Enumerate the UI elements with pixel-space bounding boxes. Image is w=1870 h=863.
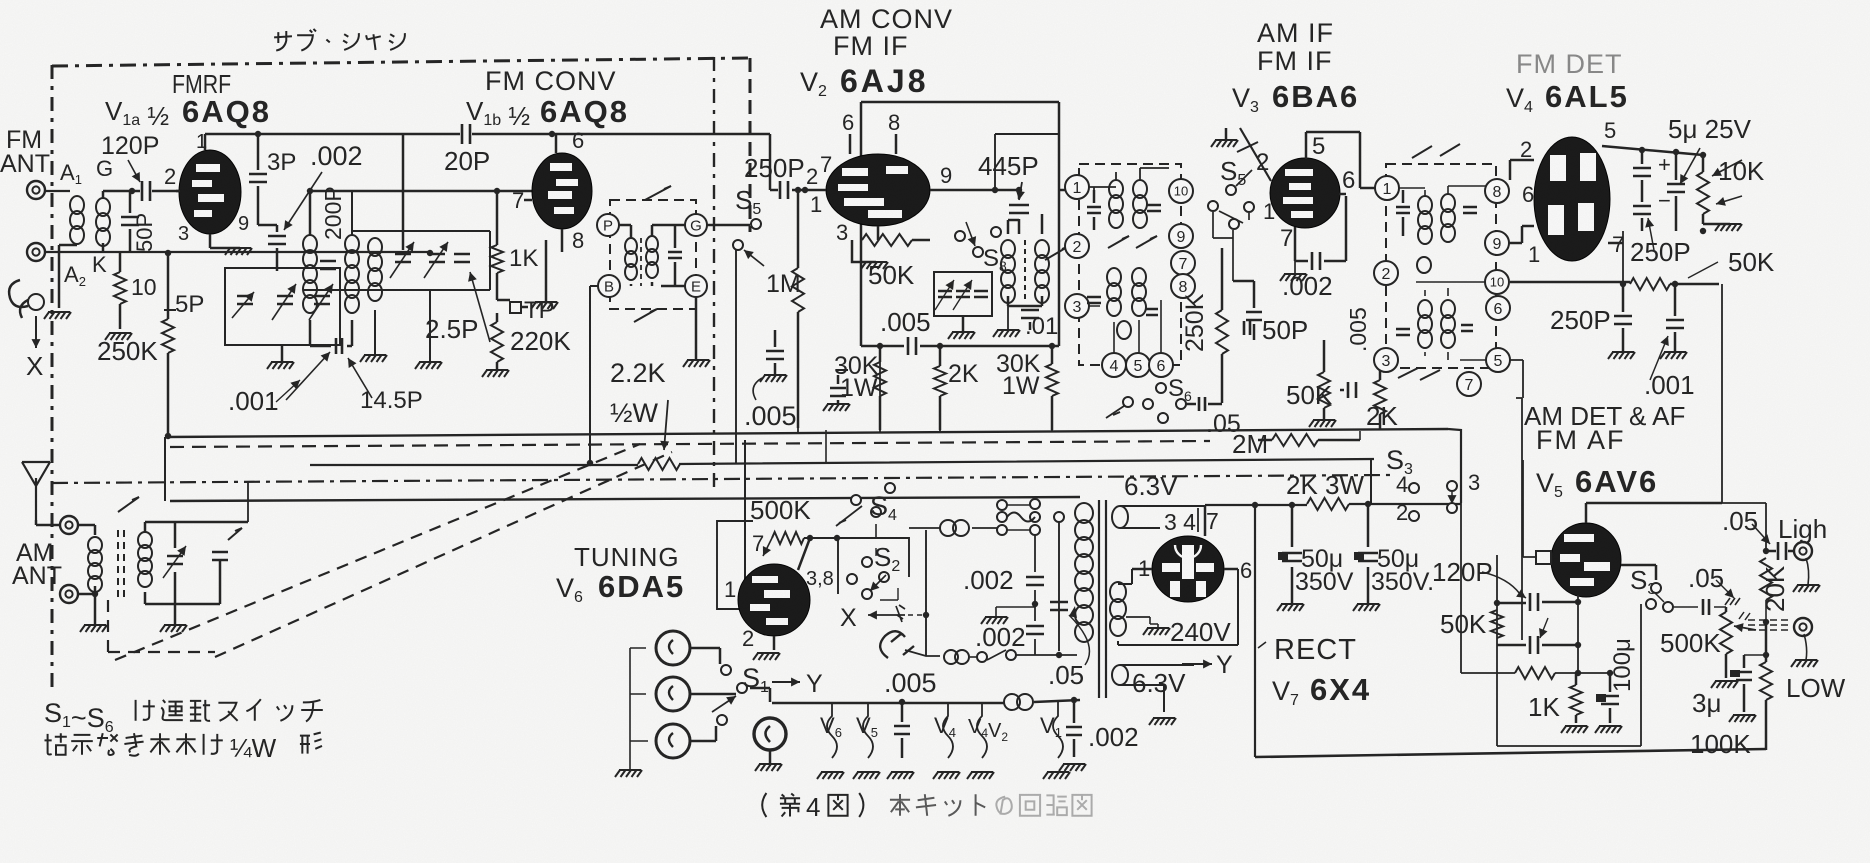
label V1b 1/2: [466, 96, 530, 131]
label V4h: [934, 713, 956, 740]
label FMRF: [172, 70, 231, 100]
label .002 pb: [975, 622, 1026, 652]
capacitor .05s6: [1186, 397, 1222, 411]
variable cap am1: [163, 546, 186, 578]
label 1/2W: [610, 398, 669, 450]
ground jacks: [615, 770, 642, 777]
label .005 heater: [884, 668, 937, 698]
pin circle E: [685, 275, 707, 297]
ratio cap d: [1461, 325, 1473, 331]
resistor 2K vert: [934, 343, 946, 430]
wire S4 vert: [875, 524, 877, 538]
label 2.5P: [425, 272, 490, 344]
electrolytic 50u b: [1353, 504, 1380, 611]
resistor 50K horiz: [1510, 278, 1719, 290]
label 1K: [509, 245, 538, 272]
label S5: [735, 185, 761, 218]
pin circle r10: [1485, 270, 1509, 294]
wire .001 arrow: [286, 352, 330, 400]
label S3 top: [1386, 445, 1413, 478]
trimmer cap 5P: [232, 292, 254, 318]
capacitor .005 mid: [861, 337, 1059, 355]
label 6AQ8 a: [182, 94, 271, 129]
wire am ant: [36, 520, 95, 594]
AMIF cap L: [1087, 190, 1101, 230]
AC plug: [880, 631, 914, 658]
pin 6: [572, 128, 584, 153]
pin 3: [178, 223, 189, 245]
capacitor 2nd v5: [1497, 618, 1578, 654]
variable cap am2: [212, 528, 242, 560]
label V3: [1232, 83, 1259, 116]
PT 240V tap: [1126, 617, 1170, 635]
label AM DET AF: [1524, 401, 1685, 431]
pin circle r1: [1375, 176, 1399, 200]
PT core: [1099, 500, 1106, 698]
tube V1b 6AQ8: [524, 134, 592, 252]
ground osc: [948, 316, 975, 339]
label 240V: [1170, 617, 1231, 647]
tube V2 6AJ8: [805, 134, 1019, 240]
TP square: [497, 300, 528, 313]
terminal AM2: [60, 585, 78, 603]
V6 grid frame: [717, 521, 753, 609]
capacitor .01: [993, 306, 1042, 337]
resistor 50K v5: [1491, 610, 1503, 638]
variable cap o2: [953, 280, 972, 310]
pin 1 v6: [724, 577, 736, 602]
pin 2: [164, 164, 176, 189]
label .005 mid: [880, 307, 931, 337]
wire bus y498: [165, 437, 1080, 501]
tube V6 6DA5: [738, 538, 810, 650]
AM coil primary: [88, 537, 102, 592]
wire ant to coil: [45, 191, 433, 256]
shielded cable LOW: [1739, 612, 1792, 630]
wire jacks: [690, 648, 736, 741]
AM coil secondary: [138, 532, 152, 587]
switch S4: [836, 483, 895, 526]
pin 1: [1263, 199, 1275, 224]
label V7: [1272, 676, 1299, 709]
label 14.5P: [348, 358, 423, 414]
label V5h: [856, 713, 878, 740]
switch S6: [1123, 383, 1186, 423]
wire pin7 down: [1622, 231, 1624, 282]
S5c lever to grid: [1240, 128, 1271, 181]
resistor 50K v3: [1309, 340, 1336, 427]
pin circle r9: [1485, 231, 1509, 255]
label .002: [310, 141, 363, 171]
wire top v2: [995, 133, 1059, 135]
AMIF coil 1: [1109, 180, 1123, 228]
ratio coil 2: [1441, 194, 1455, 242]
pin circle P: [597, 214, 619, 236]
resistor 30K 1W a: [836, 369, 848, 371]
wire grid v1b: [308, 188, 533, 194]
capacitor 445P: [1009, 187, 1029, 234]
label 6AL5: [1545, 79, 1629, 114]
pin circle 10: [1169, 179, 1193, 203]
capacitor .05 p: [1050, 602, 1089, 665]
heater stub V4a: [933, 702, 960, 779]
label S5 right: [1220, 156, 1246, 189]
label 6AV6: [1575, 464, 1658, 499]
lever S6: [1106, 406, 1124, 418]
hatch v5: [1716, 580, 1740, 605]
label 6.3V bot: [1132, 668, 1186, 698]
pin 8: [888, 110, 900, 135]
label 500K v5: [1660, 628, 1721, 658]
pin 7: [1612, 232, 1624, 257]
wire v6 plate riser: [825, 430, 827, 462]
pin circle r7: [1457, 372, 1481, 396]
label 5P: [175, 291, 204, 318]
heater stub V1: [1043, 702, 1070, 779]
label 6DA5: [598, 569, 685, 604]
capacitor .002 pa: [1026, 535, 1044, 621]
capacitor 120P: [128, 160, 180, 201]
pin 8: [572, 228, 584, 253]
caption fig4: [762, 792, 1091, 822]
label 200P rot: [320, 186, 346, 240]
ratio coil 4: [1441, 300, 1455, 348]
disc coil 2: [646, 236, 658, 278]
label 6AJ8: [840, 63, 929, 99]
switch S2 box: [838, 538, 909, 594]
wire S3 riser: [1460, 430, 1462, 673]
AMIF levers: [1108, 236, 1157, 248]
wire B+ from rect: [1205, 501, 1461, 508]
pin circle 4: [1102, 353, 1126, 377]
wire 1 to box: [1059, 189, 1065, 192]
switch S5b: [1226, 170, 1252, 195]
pin 2 v6: [742, 626, 754, 651]
audio box bottom: [1497, 604, 1641, 746]
label V4: [1506, 83, 1533, 116]
pin 1 v7: [1138, 556, 1150, 581]
primary frame ground: [44, 245, 77, 319]
label 50P rot: [132, 213, 157, 252]
electrolytic 50u a: [1277, 505, 1304, 611]
ground jack h: [1793, 558, 1820, 592]
resistor 2M: [1258, 434, 1360, 446]
label RECT: [1258, 634, 1357, 666]
label 100u rot: [1609, 638, 1636, 692]
pin 38: [806, 568, 834, 590]
capacitor 50P: [1233, 281, 1262, 340]
label 3P: [267, 149, 296, 176]
capacitor 20P: [462, 124, 470, 144]
capacitor .05 v5: [1674, 599, 1726, 615]
label 250P low: [1550, 305, 1611, 335]
label 10K: [1718, 156, 1765, 186]
ground am1: [80, 591, 107, 632]
wire det out: [1623, 224, 1706, 234]
label 50K v5: [1440, 609, 1487, 639]
FMIF transformer coil L: [1001, 240, 1015, 303]
label 50u a: [1295, 545, 1354, 596]
label 10: [131, 274, 157, 300]
label V4b: [968, 716, 1008, 744]
discriminator dashed box: [610, 200, 696, 309]
capacitor .005h: [887, 699, 914, 779]
pin circle 5: [1126, 353, 1150, 377]
AMIF cap L2: [1087, 297, 1101, 303]
capacitor .05 out: [1766, 542, 1794, 560]
switch S5 lower contacts: [1208, 201, 1254, 281]
phono jack 3: [656, 724, 690, 758]
V7 heater arc: [1175, 545, 1201, 558]
capacitor 250P t1: [1633, 147, 1651, 202]
label 6.3V top: [1124, 471, 1178, 501]
label V2: [800, 67, 827, 100]
capacitor 250P in: [770, 181, 808, 199]
label 250K: [97, 336, 158, 366]
label 6AQ8 b: [540, 94, 629, 129]
AMIF coil 2: [1133, 180, 1147, 228]
label S2: [874, 542, 900, 575]
heater stub V5: [853, 702, 880, 779]
ratio lever low: [1398, 368, 1440, 380]
pin 3: [836, 220, 848, 245]
label .01: [1025, 313, 1058, 340]
label A2: [64, 262, 86, 289]
pin 1: [196, 131, 207, 153]
capacitor .005b: [823, 375, 850, 411]
label Y right: [1216, 651, 1233, 679]
pin circle 7: [1171, 251, 1195, 275]
AMIF cap R: [1147, 205, 1161, 211]
label 20P: [444, 146, 490, 176]
wire B+ bus y462: [310, 459, 1374, 503]
wire bias row: [1461, 670, 1613, 676]
wire jack common: [630, 648, 648, 770]
resistor 1K v5: [1561, 673, 1588, 733]
resistor 100K: [1760, 622, 1772, 750]
capacitor o3: [974, 291, 988, 297]
wire 50K col: [1496, 555, 1498, 746]
wire plug out: [905, 650, 940, 656]
label 30K 1W a: [834, 352, 879, 402]
label S3 mid: [1630, 565, 1656, 598]
resistor 2K v3: [1374, 352, 1386, 430]
label AM IF: [1257, 18, 1334, 48]
label 120P v5: [1432, 557, 1526, 598]
phono jack 2: [656, 677, 690, 711]
FMIF transformer coil R: [1035, 240, 1049, 303]
ground pt sec: [1149, 718, 1176, 725]
label 50K det: [1688, 247, 1775, 278]
V2 box: [861, 102, 1059, 346]
AM bar core: [118, 530, 124, 600]
label Y left: [806, 670, 823, 698]
label V6h: [820, 713, 842, 740]
pin 9: [238, 213, 249, 235]
label pins 347: [1164, 508, 1219, 535]
wire interstage top: [307, 188, 313, 235]
capacitor .005 left: [760, 330, 787, 382]
capacitor 3P: [249, 134, 267, 225]
AMIF wires top: [1089, 168, 1169, 190]
label LOW: [1786, 673, 1846, 703]
resistor 10 vert: [105, 253, 132, 340]
wire ratio5 to AF: [1510, 360, 1523, 398]
resistor 1K vert: [491, 191, 503, 300]
ratio cap a: [1396, 190, 1410, 236]
capacitor 200P: [320, 261, 336, 269]
FMIF core dashes: [1024, 240, 1026, 300]
AMIF coil 3: [1107, 268, 1121, 316]
label S6: [1168, 375, 1192, 404]
pin circle 8: [1171, 274, 1195, 298]
capacitor right: [1244, 321, 1250, 335]
label X mid: [840, 604, 905, 632]
power transformer primary: [1075, 503, 1093, 642]
label V1h: [1040, 713, 1062, 740]
label sub-chassis title: [274, 29, 405, 51]
label S4: [870, 491, 897, 524]
ratio coil 3: [1418, 300, 1432, 348]
resistor 50K v2: [862, 234, 930, 246]
switch S3 top: [1409, 481, 1457, 521]
wire switch vert: [1056, 522, 1062, 658]
pin 7: [752, 531, 772, 556]
AMIF dashed box: [1079, 164, 1181, 365]
label S1: [742, 663, 769, 696]
ground conv coil: [360, 310, 387, 362]
variable cap c2: [424, 242, 448, 278]
wire x riser: [908, 530, 929, 656]
pin circle 2: [1065, 234, 1089, 258]
ground top right: [1211, 128, 1238, 147]
label 2: [1396, 500, 1408, 525]
arrow ligh: [1752, 524, 1770, 544]
lever am: [118, 497, 139, 512]
variable cap main a: [272, 284, 296, 320]
wire dashdot bus y480: [52, 475, 1390, 483]
resistor grid leak: [164, 309, 176, 311]
X break mark: [896, 605, 905, 622]
pin circle 6: [1149, 353, 1173, 377]
ground tank: [267, 345, 294, 369]
pin circle B: [598, 275, 620, 297]
wire B+ riser V6: [745, 440, 750, 609]
pin 1: [810, 192, 822, 217]
wire 20P riser: [402, 134, 405, 250]
ground .002 pa: [981, 607, 1035, 624]
label FM ANT: [0, 126, 50, 178]
switch S5a: [733, 219, 764, 266]
variable cap o1: [935, 280, 954, 310]
label .001 arrow: [276, 380, 300, 402]
volume 500K: [1711, 607, 1738, 688]
label .002 v3: [1280, 261, 1333, 301]
label .05 s6: [1206, 410, 1241, 438]
pin 2: [1520, 137, 1532, 162]
resistor 20K: [1760, 548, 1772, 625]
label FM AF: [1536, 425, 1626, 455]
label 6X4: [1310, 672, 1371, 707]
label AM ANT: [12, 539, 62, 590]
pin circle r2: [1374, 261, 1398, 285]
AMIF wires low: [1089, 300, 1161, 353]
label V1a 1/2: [105, 96, 169, 131]
resistor 30Kb vert: [1046, 343, 1058, 430]
label A1: [60, 160, 82, 187]
label 30K 1W b: [996, 350, 1041, 400]
ground V1a cathode: [210, 248, 252, 255]
disc coil 1: [625, 238, 637, 280]
wire v3 bus: [1359, 431, 1361, 440]
label .002 pa: [963, 565, 1014, 595]
label FM CONV: [485, 66, 617, 96]
ratio lever top: [1412, 144, 1460, 158]
pin 1: [1528, 242, 1540, 267]
label .001 det: [1644, 336, 1695, 400]
resistor 2.2K 1/2W: [638, 458, 680, 470]
heater stub V6: [817, 702, 844, 779]
label 50K: [868, 260, 915, 290]
pin 7: [820, 152, 832, 177]
capacitor 120P v5: [1494, 593, 1581, 611]
electrolytic 100u: [1595, 673, 1622, 733]
PT 240V winding: [1110, 569, 1238, 645]
wire coil tops: [103, 191, 132, 253]
pin 5: [1604, 118, 1616, 143]
label K: [92, 252, 107, 277]
capacitor 250P t2: [1633, 206, 1651, 231]
resistor 250K vert2: [1216, 248, 1228, 403]
ratio wires: [1399, 186, 1486, 360]
label 2.2K: [610, 358, 666, 388]
label 445P: [978, 151, 1039, 200]
label .05 out: [1722, 506, 1758, 536]
label G: [96, 156, 113, 181]
tube V7 6X4: [1132, 506, 1238, 602]
ratio small loop: [1417, 257, 1431, 273]
label note resistors: [44, 732, 322, 763]
label 220K: [510, 326, 571, 356]
pin circle 1: [1065, 175, 1089, 199]
label 250P mid: [744, 153, 805, 183]
label note S1-S6: [44, 698, 323, 736]
wire left vert: [1254, 505, 1256, 757]
resistor 220K: [482, 313, 509, 377]
label FM DET: [1516, 49, 1623, 79]
label AM CONV: [820, 4, 953, 34]
wire am sec: [145, 522, 248, 604]
label .05 p: [1048, 660, 1084, 690]
tube V3 6BA6: [1270, 132, 1375, 228]
wire tank top: [303, 191, 490, 290]
ratio coil 1: [1418, 196, 1432, 244]
terminal FM ant A2: [27, 243, 45, 261]
resistor 2K3W: [1307, 498, 1349, 510]
terminal AM1: [60, 516, 78, 534]
switch S1: [712, 665, 747, 725]
PT 6.3V top winding: [1112, 506, 1205, 528]
switch low: [977, 650, 1077, 662]
resistor 10K vert: [1697, 152, 1742, 231]
AMIF coil 4: [1132, 268, 1146, 316]
ratio cap c: [1396, 329, 1410, 335]
label Ligh: [1778, 514, 1827, 544]
label .001: [228, 386, 279, 416]
wire G to S5: [707, 224, 750, 227]
label 1M: [766, 270, 801, 298]
ground disc E: [683, 297, 710, 367]
